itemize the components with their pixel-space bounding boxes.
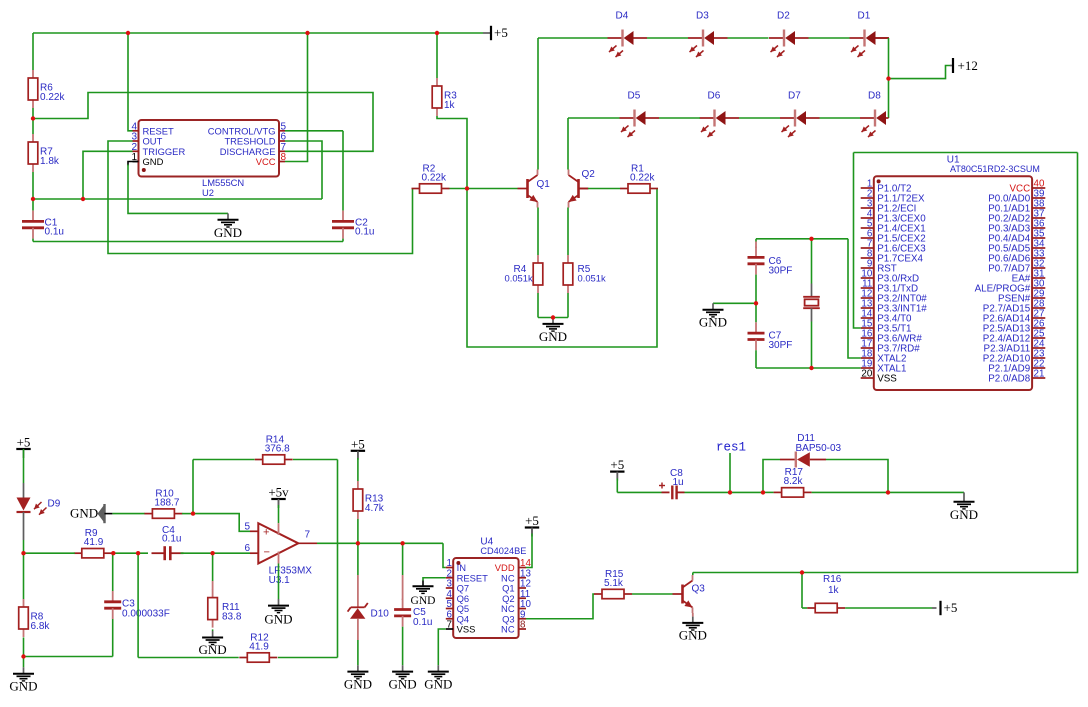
svg-text:+5: +5	[525, 513, 539, 528]
svg-text:GND: GND	[214, 225, 242, 240]
svg-text:GND: GND	[9, 679, 37, 694]
svg-text:0.1u: 0.1u	[355, 227, 374, 238]
svg-text:GND: GND	[699, 315, 727, 330]
svg-text:R16: R16	[823, 574, 842, 585]
svg-text:1k: 1k	[828, 585, 840, 596]
svg-text:VSS: VSS	[877, 374, 897, 385]
svg-text:7: 7	[305, 530, 311, 541]
svg-text:D6: D6	[708, 91, 721, 102]
svg-text:0.1u: 0.1u	[413, 617, 432, 628]
svg-text:4.7k: 4.7k	[365, 503, 385, 514]
svg-text:0.1u: 0.1u	[45, 227, 64, 238]
svg-text:6.8k: 6.8k	[31, 621, 51, 632]
svg-text:0.051k: 0.051k	[505, 273, 533, 284]
svg-text:D9: D9	[48, 499, 61, 510]
svg-text:+5: +5	[610, 457, 624, 472]
svg-text:41.9: 41.9	[249, 641, 269, 652]
svg-text:GND: GND	[950, 507, 978, 522]
svg-text:CD4024BE: CD4024BE	[480, 546, 526, 556]
svg-text:D10: D10	[371, 609, 390, 620]
svg-text:8: 8	[281, 152, 287, 163]
svg-text:+5: +5	[494, 25, 508, 40]
svg-text:+: +	[263, 527, 269, 539]
svg-text:AT80C51RD2-3CSUM: AT80C51RD2-3CSUM	[950, 164, 1040, 174]
svg-text:376.8: 376.8	[265, 443, 290, 454]
svg-text:GND: GND	[411, 595, 436, 607]
svg-text:0.22k: 0.22k	[630, 172, 655, 183]
svg-text:1k: 1k	[444, 100, 456, 111]
svg-text:VSS: VSS	[457, 624, 476, 635]
svg-text:BAP50-03: BAP50-03	[796, 443, 842, 454]
svg-text:U2: U2	[202, 187, 214, 198]
svg-text:GND: GND	[143, 156, 164, 167]
svg-text:1.8k: 1.8k	[40, 156, 60, 167]
svg-text:41.9: 41.9	[84, 537, 104, 548]
svg-text:188.7: 188.7	[154, 497, 179, 508]
svg-text:res1: res1	[716, 441, 746, 455]
svg-text:0.22k: 0.22k	[40, 92, 65, 103]
svg-text:GND: GND	[344, 677, 372, 692]
svg-text:5.1k: 5.1k	[604, 578, 624, 589]
svg-text:U3.1: U3.1	[269, 575, 291, 586]
svg-text:GND: GND	[424, 677, 452, 692]
svg-text:GND: GND	[679, 628, 707, 643]
svg-text:0.22k: 0.22k	[422, 172, 447, 183]
svg-text:+5: +5	[944, 600, 958, 615]
svg-text:D3: D3	[696, 11, 709, 22]
svg-text:Q1: Q1	[537, 179, 551, 190]
svg-text:VCC: VCC	[256, 156, 276, 167]
svg-text:D2: D2	[777, 11, 790, 22]
svg-text:21: 21	[1034, 369, 1045, 380]
svg-text:−: −	[264, 547, 270, 559]
svg-text:+5: +5	[17, 435, 31, 450]
svg-text:8.2k: 8.2k	[784, 476, 804, 487]
svg-text:D8: D8	[868, 91, 881, 102]
svg-text:20: 20	[861, 369, 872, 380]
svg-text:NC: NC	[501, 624, 515, 635]
svg-text:5: 5	[245, 522, 251, 533]
svg-text:GND: GND	[539, 329, 567, 344]
svg-text:Q2: Q2	[582, 169, 596, 180]
svg-text:7: 7	[447, 620, 452, 631]
svg-text:D7: D7	[788, 91, 801, 102]
svg-text:0.000033F: 0.000033F	[122, 609, 170, 620]
svg-text:GND: GND	[199, 642, 227, 657]
svg-text:D5: D5	[628, 91, 641, 102]
svg-text:D4: D4	[616, 11, 629, 22]
svg-text:1: 1	[131, 152, 137, 163]
svg-text:30PF: 30PF	[769, 265, 793, 276]
svg-text:6: 6	[245, 543, 251, 554]
svg-text:GND: GND	[264, 612, 292, 627]
svg-text:GND: GND	[70, 506, 98, 521]
svg-text:83.8: 83.8	[222, 612, 242, 623]
svg-text:0.051k: 0.051k	[578, 273, 606, 284]
svg-text:1u: 1u	[673, 477, 684, 488]
svg-text:+12: +12	[958, 58, 978, 73]
svg-text:8: 8	[520, 620, 526, 631]
svg-text:+5v: +5v	[268, 485, 289, 500]
svg-text:D1: D1	[858, 11, 871, 22]
svg-text:+5: +5	[351, 436, 365, 451]
svg-text:0.1u: 0.1u	[162, 534, 181, 545]
svg-text:30PF: 30PF	[769, 340, 793, 351]
svg-text:GND: GND	[389, 677, 417, 692]
svg-text:Q3: Q3	[692, 584, 706, 595]
svg-text:P2.0/AD8: P2.0/AD8	[988, 374, 1030, 385]
